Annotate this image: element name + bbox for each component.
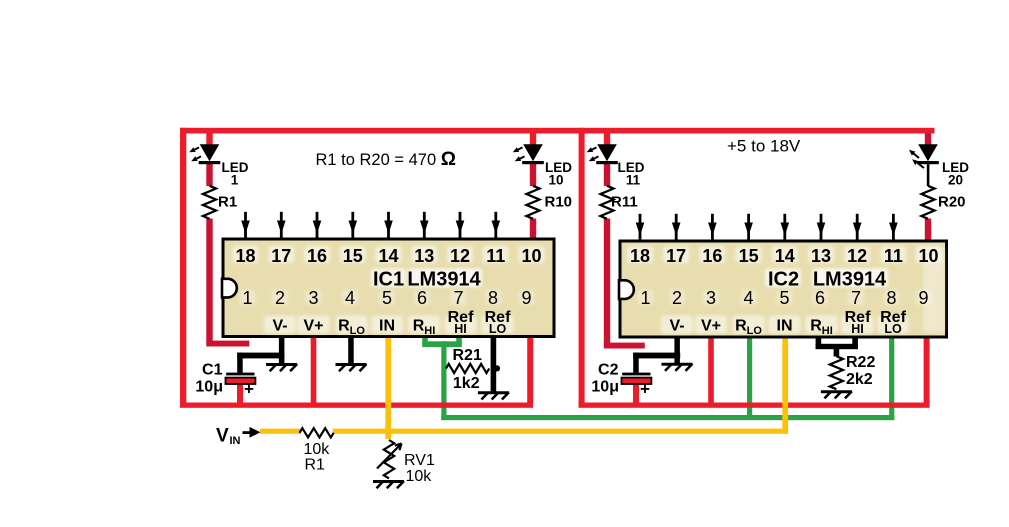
svg-text:LO: LO (489, 322, 507, 336)
svg-text:10μ: 10μ (591, 379, 619, 396)
svg-text:R10: R10 (545, 194, 573, 211)
svg-text:IN: IN (379, 318, 395, 335)
svg-text:C2: C2 (598, 362, 619, 379)
svg-text:6: 6 (815, 288, 825, 308)
svg-text:1: 1 (231, 173, 239, 188)
svg-text:10k: 10k (304, 441, 331, 458)
svg-text:11: 11 (884, 246, 903, 266)
svg-text:R1: R1 (218, 194, 237, 211)
svg-text:V: V (216, 426, 229, 447)
svg-text:7: 7 (851, 288, 861, 308)
svg-text:14: 14 (378, 246, 398, 266)
svg-text:LO: LO (884, 322, 902, 336)
svg-text:HI: HI (454, 322, 467, 336)
svg-text:RV1: RV1 (404, 452, 435, 469)
svg-text:20: 20 (948, 173, 963, 188)
svg-text:9: 9 (521, 288, 531, 308)
svg-text:5: 5 (382, 288, 392, 308)
svg-text:R21: R21 (453, 347, 482, 364)
svg-text:6: 6 (417, 288, 427, 308)
svg-text:10k: 10k (406, 468, 433, 485)
svg-text:R20: R20 (938, 194, 966, 211)
svg-text:10μ: 10μ (195, 379, 223, 396)
svg-text:10: 10 (521, 246, 541, 266)
svg-text:3: 3 (308, 288, 318, 308)
svg-text:11: 11 (626, 173, 641, 188)
svg-text:8: 8 (886, 288, 896, 308)
svg-text:13: 13 (414, 246, 434, 266)
svg-text:17: 17 (271, 246, 291, 266)
svg-text:R1: R1 (305, 457, 326, 474)
svg-text:4: 4 (743, 288, 753, 308)
svg-text:C1: C1 (202, 362, 223, 379)
svg-text:18: 18 (630, 246, 650, 266)
svg-text:R1 to R20 = 470 Ω: R1 to R20 = 470 Ω (316, 149, 456, 170)
svg-text:V+: V+ (303, 318, 323, 335)
svg-text:2k2: 2k2 (846, 371, 873, 388)
svg-text:+5 to 18V: +5 to 18V (727, 137, 801, 156)
svg-text:1: 1 (640, 288, 650, 308)
svg-text:12: 12 (847, 246, 867, 266)
svg-text:8: 8 (488, 288, 498, 308)
svg-text:10: 10 (918, 246, 938, 266)
svg-text:1: 1 (242, 288, 252, 308)
svg-text:2: 2 (275, 288, 285, 308)
svg-text:4: 4 (345, 288, 355, 308)
svg-text:V+: V+ (701, 318, 721, 335)
svg-text:V-: V- (669, 318, 684, 335)
svg-text:2: 2 (672, 288, 682, 308)
svg-text:10: 10 (548, 173, 563, 188)
svg-text:R22: R22 (846, 354, 875, 371)
svg-text:16: 16 (702, 246, 722, 266)
svg-text:12: 12 (450, 246, 470, 266)
svg-text:13: 13 (811, 246, 831, 266)
svg-text:18: 18 (235, 246, 255, 266)
svg-text:IN: IN (230, 435, 241, 447)
svg-text:17: 17 (666, 246, 686, 266)
svg-text:14: 14 (775, 246, 795, 266)
svg-text:+: + (640, 380, 650, 399)
svg-text:7: 7 (453, 288, 463, 308)
svg-text:IN: IN (777, 318, 793, 335)
svg-text:HI: HI (851, 322, 864, 336)
svg-text:5: 5 (779, 288, 789, 308)
svg-text:16: 16 (307, 246, 327, 266)
svg-text:R11: R11 (611, 194, 638, 211)
svg-text:+: + (244, 380, 254, 399)
svg-text:3: 3 (706, 288, 716, 308)
svg-text:15: 15 (739, 246, 759, 266)
svg-text:V-: V- (272, 318, 287, 335)
svg-text:11: 11 (486, 246, 505, 266)
svg-text:1k2: 1k2 (453, 375, 480, 392)
svg-text:15: 15 (343, 246, 363, 266)
svg-text:9: 9 (918, 288, 928, 308)
